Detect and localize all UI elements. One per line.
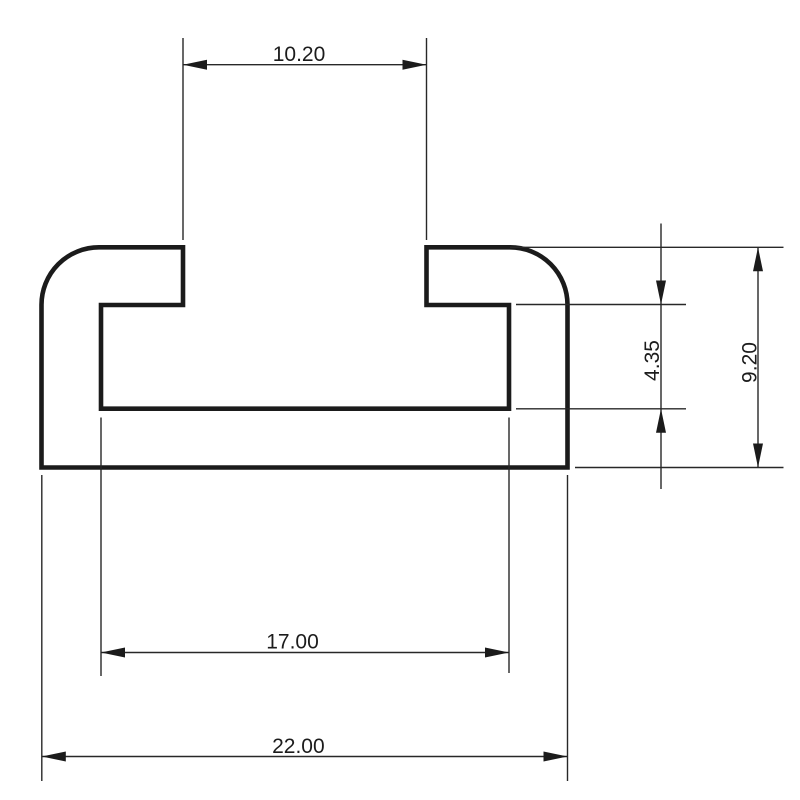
dimension 4.35 extension line top (lip bottom level) — [516, 304, 686, 306]
dimension 10.20 line — [183, 64, 427, 66]
dimension 9.20 extension line top (profile top level) — [510, 246, 784, 248]
svg-text:10.20: 10.20 — [273, 43, 326, 66]
C-channel profile outline — [42, 247, 568, 467]
svg-text:9.20: 9.20 — [739, 342, 762, 383]
dimension 4.35 arrow upper (points down) — [656, 281, 666, 305]
dimension 17.00 arrow right — [485, 648, 509, 658]
dimension 9.20 extension line bottom (profile bottom level) — [575, 467, 784, 469]
dimension 22.00 arrow left — [42, 752, 66, 762]
dimension 17.00 line — [101, 652, 509, 654]
dimension 4.35 extension line bottom (cavity floor level) — [516, 408, 686, 410]
dimension 22.00 extension line right — [567, 475, 569, 781]
dimension 4.35 arrow lower (points up) — [656, 409, 666, 433]
dimension 9.20 arrow lower (points down) — [753, 444, 763, 468]
dimension 10.20 arrow right — [403, 60, 427, 70]
svg-text:4.35: 4.35 — [641, 340, 664, 381]
dimension 17.00 extension line right — [508, 418, 510, 674]
svg-text:17.00: 17.00 — [266, 631, 319, 654]
dimension 17.00 extension line left — [100, 418, 102, 677]
svg-text:22.00: 22.00 — [272, 735, 325, 758]
dimension 22.00 arrow right — [544, 752, 568, 762]
dimension 9.20 line — [757, 247, 759, 467]
dimension 10.20 arrow left — [183, 60, 207, 70]
dimension 22.00 line — [42, 756, 568, 758]
dimension 22.00 extension line left — [41, 475, 43, 781]
dimension 10.20 extension line right — [426, 38, 428, 240]
dimension 17.00 arrow left — [101, 648, 125, 658]
dimension 9.20 arrow upper (points up) — [753, 247, 763, 271]
dimension 10.20 extension line left — [182, 38, 184, 240]
dimension 4.35 line — [660, 224, 662, 490]
